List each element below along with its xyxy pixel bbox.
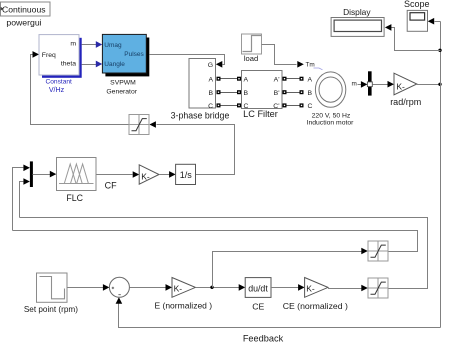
svg-text:Scope: Scope (404, 0, 430, 9)
svg-text:Pulses: Pulses (124, 51, 144, 58)
svg-text:Display: Display (343, 7, 371, 17)
wire junction up to saturation2 (213, 252, 362, 288)
wire into mux top from E-sat return (13, 168, 24, 231)
constant V/Hz block (39, 35, 79, 95)
svg-text:theta: theta (61, 61, 76, 68)
svg-text:CE (normalized ): CE (normalized ) (283, 301, 348, 311)
FLC block (57, 158, 97, 203)
wire: Pulses to bridge G (150, 55, 225, 65)
gain rad/rpm (390, 73, 421, 107)
svg-text:K-: K- (306, 284, 315, 294)
svg-text:A: A (208, 76, 213, 83)
wire gain output to feedback vertical (417, 84, 441, 86)
svg-text:K-: K- (174, 284, 183, 294)
svg-text:Tm: Tm (306, 62, 315, 69)
wire filter B' to motor B (287, 92, 300, 94)
wire E gain to du/dt (195, 287, 239, 289)
svg-text:load: load (244, 54, 258, 63)
wire into mux bottom from CE-sat return (20, 182, 24, 218)
demux selector bar (368, 71, 372, 95)
wire sum to E gain (130, 287, 167, 289)
integrator 1/s (176, 164, 196, 184)
sum junction (109, 277, 129, 297)
svg-text:rad/rpm: rad/rpm (390, 97, 421, 107)
wire m to demux (358, 84, 363, 86)
arrow into mux top (23, 165, 30, 172)
arrow into sum bottom (116, 297, 123, 304)
motor port squares (300, 77, 304, 81)
wire filter C' to motor C (287, 105, 300, 107)
svg-text:Feedback: Feedback (243, 333, 284, 343)
gain CE (normalized) (283, 278, 348, 311)
saturation1 block (129, 115, 149, 135)
svg-text:B: B (208, 90, 213, 97)
wire bridge A to filter A (221, 78, 238, 80)
svg-text:CE: CE (252, 301, 264, 311)
wire to scope (435, 21, 441, 23)
svg-text:C: C (308, 103, 313, 110)
svg-text:K-: K- (141, 171, 150, 181)
junction dot (438, 83, 441, 86)
svg-text:m: m (70, 41, 76, 48)
gain E (normalized) (154, 278, 212, 311)
svg-text:FLC: FLC (66, 193, 83, 203)
wire to display (391, 28, 441, 51)
wire du/dt to CE gain (271, 287, 299, 289)
gain CF (139, 165, 159, 184)
wire: 1/s output up to saturation1 (157, 125, 235, 175)
arrow into Tm (297, 61, 304, 68)
saturation2 block (E path) (368, 241, 388, 261)
svg-text:Umag: Umag (104, 42, 122, 49)
Tm label leader line (314, 68, 323, 70)
derivative du/dt (245, 278, 271, 298)
wire demux to rad/rpm gain (373, 84, 389, 86)
svg-text:Generator: Generator (106, 89, 137, 96)
svg-text:Set point (rpm): Set point (rpm) (24, 305, 78, 314)
svg-text:Continuous: Continuous (2, 4, 45, 14)
saturation3 block (CE path) (368, 278, 388, 298)
junction dot after E gain (210, 286, 213, 289)
wire FLC to CF gain (97, 174, 133, 176)
wire: saturation1 output to Freq input (31, 55, 130, 125)
wire: theta to Uangle (82, 64, 97, 66)
svg-text:A: A (244, 76, 249, 83)
wire CF gain to 1/s (159, 174, 170, 176)
mux bar (30, 161, 33, 187)
svg-text:Induction motor: Induction motor (307, 119, 355, 126)
LC filter block (242, 71, 283, 120)
svg-text:B: B (244, 90, 249, 97)
arrow into Freq (33, 51, 40, 58)
svg-text:powergui: powergui (6, 18, 41, 28)
svg-text:B: B (308, 90, 313, 97)
wire CE gain to saturation3 (328, 288, 362, 290)
bottom feedback wire (119, 304, 441, 328)
svg-text:1/s: 1/s (180, 170, 193, 180)
filter left port squares (237, 77, 241, 81)
svg-text:CF: CF (105, 180, 117, 190)
svg-text:LC Filter: LC Filter (243, 109, 278, 119)
3-phase bridge block (171, 59, 230, 121)
display block (331, 7, 384, 36)
svg-text:E (normalized ): E (normalized ) (154, 301, 212, 311)
wire mux to FLC (33, 174, 51, 176)
saturation3 return wire (20, 218, 428, 289)
load block (242, 34, 262, 63)
demux center square (367, 82, 372, 87)
svg-text:A': A' (274, 76, 280, 83)
induction motor block (307, 72, 355, 126)
svg-text:Freq: Freq (42, 52, 56, 59)
arrow into saturation1 right edge (149, 121, 156, 128)
arrow into G (216, 61, 223, 68)
svg-text:A: A (308, 76, 313, 83)
svg-text:K-: K- (396, 81, 405, 91)
svg-text:G: G (208, 62, 213, 69)
svg-text:m: m (352, 80, 357, 87)
svg-text:V/Hz: V/Hz (49, 86, 65, 94)
wire set point to sum (68, 287, 104, 289)
SVPWM generator block shadow (105, 38, 149, 77)
main feedback vertical wire (440, 22, 442, 328)
svg-text:C: C (208, 103, 213, 110)
filter right port squares (283, 77, 287, 81)
svg-text:Constant: Constant (45, 79, 72, 86)
wire: m to Umag (82, 44, 97, 46)
constant V/Hz block shadow (42, 38, 82, 78)
wire bridge C to filter C (221, 105, 238, 107)
powergui block (1, 2, 51, 28)
svg-text:SVPWM: SVPWM (110, 80, 136, 87)
scope block (404, 0, 430, 31)
saturation2 return wire (13, 231, 418, 252)
svg-text:du/dt: du/dt (248, 283, 268, 293)
svg-text:B': B' (274, 90, 280, 97)
set point block (24, 273, 78, 314)
svg-text:Uangle: Uangle (104, 61, 125, 68)
SVPWM generator block (102, 34, 146, 95)
arrow into mux bottom (23, 178, 30, 185)
svg-text:3-phase bridge: 3-phase bridge (171, 110, 230, 120)
wire bridge B to filter B (221, 92, 238, 94)
bridge port squares (217, 77, 221, 81)
wire: load to Tm (262, 45, 297, 65)
junction dot display branch (438, 49, 441, 52)
wire filter A' to motor A (287, 78, 300, 80)
